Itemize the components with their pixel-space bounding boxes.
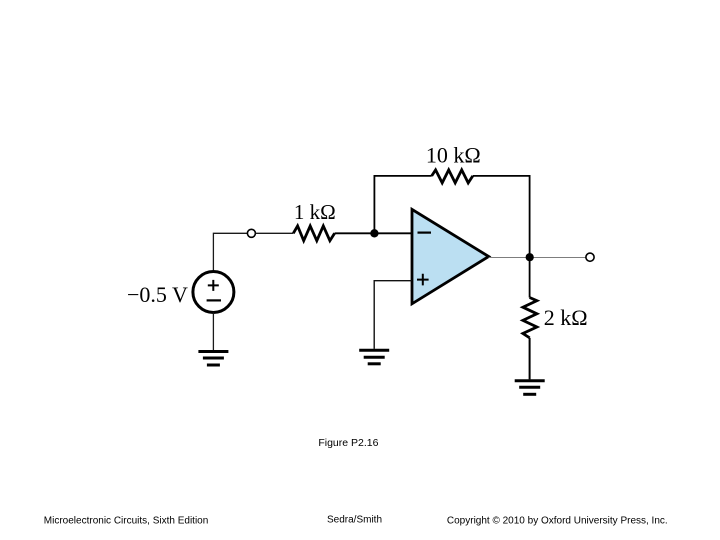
voltage source V1 circle (193, 272, 234, 313)
svg-text:Microelectronic Circuits, Sixt: Microelectronic Circuits, Sixth Edition (44, 515, 209, 526)
voltage source minus symbol (207, 299, 221, 301)
op-amp U1 triangle (412, 209, 489, 303)
resistor R2 10 kOhm zigzag (432, 170, 473, 183)
svg-text:1 kΩ: 1 kΩ (294, 200, 336, 224)
svg-text:Copyright © 2010 by Oxford Uni: Copyright © 2010 by Oxford University Pr… (447, 515, 668, 526)
wire non-inverting input to ground (374, 281, 411, 349)
svg-text:Figure P2.16: Figure P2.16 (318, 437, 378, 449)
resistor R1 1 kOhm zigzag (293, 226, 334, 241)
op-amp inverting input minus symbol (418, 232, 432, 234)
wire op-amp output (489, 257, 586, 259)
junction dot output node (526, 253, 534, 261)
resistor R3 2 kOhm zigzag (523, 298, 537, 338)
input terminal circle (247, 229, 255, 237)
voltage source plus symbol (208, 280, 219, 291)
svg-text:−0.5 V: −0.5 V (127, 282, 188, 307)
feedback wire right vertical (529, 175, 531, 257)
ground at R3 (515, 381, 545, 395)
wire output node to R3 (529, 257, 531, 297)
feedback wire left vertical (373, 176, 375, 233)
feedback wire top-left segment (374, 175, 432, 177)
wire source bottom to ground (212, 313, 214, 351)
svg-text:Sedra/Smith: Sedra/Smith (327, 515, 382, 526)
svg-text:2 kΩ: 2 kΩ (544, 305, 588, 330)
junction dot inverting node (370, 229, 378, 237)
wire from R1 to op-amp inverting input (335, 232, 412, 234)
output terminal circle (586, 253, 594, 261)
wire from input terminal to R1 (256, 232, 294, 234)
op-amp non-inverting input plus symbol (417, 274, 429, 286)
wire from source top to input terminal (213, 233, 247, 271)
wire R3 to ground (529, 338, 531, 380)
ground at source (198, 352, 228, 366)
feedback wire top-right segment (473, 175, 531, 177)
ground at non-inverting input (359, 350, 389, 364)
svg-text:10 kΩ: 10 kΩ (426, 143, 481, 168)
